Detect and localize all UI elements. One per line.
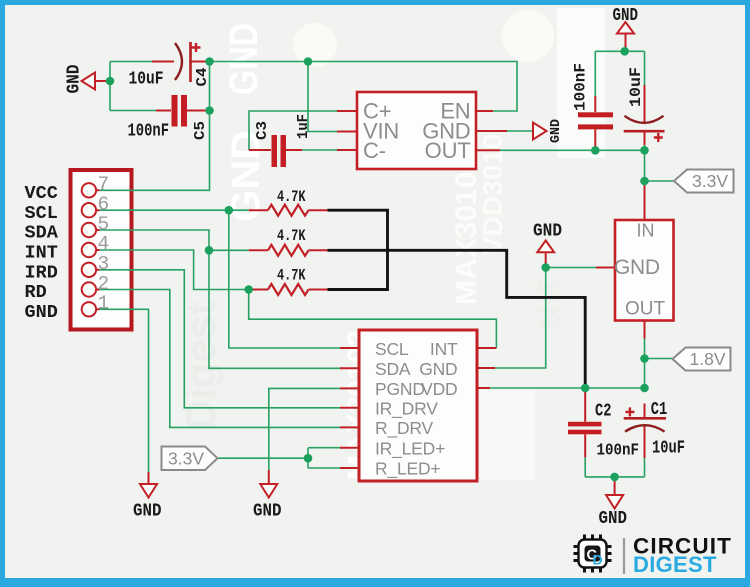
svg-text:SDA: SDA bbox=[375, 359, 411, 379]
svg-text:R_LED+: R_LED+ bbox=[375, 459, 440, 480]
svg-text:2: 2 bbox=[98, 273, 110, 295]
svg-text:3.3V: 3.3V bbox=[168, 449, 204, 469]
svg-text:3: 3 bbox=[98, 253, 110, 275]
svg-text:C5: C5 bbox=[192, 121, 209, 140]
svg-text:10uF: 10uF bbox=[129, 70, 164, 90]
svg-text:VDD3010: VDD3010 bbox=[477, 134, 508, 255]
svg-text:INT: INT bbox=[430, 339, 458, 359]
svg-text:4.7K: 4.7K bbox=[277, 188, 306, 206]
svg-text:100nF: 100nF bbox=[128, 122, 170, 142]
svg-text:SCL: SCL bbox=[25, 203, 58, 224]
svg-text:SDA: SDA bbox=[25, 223, 59, 244]
svg-text:3.3V: 3.3V bbox=[692, 171, 728, 191]
svg-text:GND: GND bbox=[222, 23, 266, 95]
svg-text:GND: GND bbox=[614, 256, 660, 279]
svg-text:RD: RD bbox=[25, 282, 47, 303]
svg-text:C-: C- bbox=[363, 138, 386, 163]
svg-text:SCL: SCL bbox=[375, 339, 409, 359]
svg-text:VDD: VDD bbox=[421, 379, 457, 399]
svg-text:R_DRV: R_DRV bbox=[375, 418, 434, 439]
svg-text:C4: C4 bbox=[194, 68, 211, 87]
svg-text:GND: GND bbox=[64, 65, 85, 94]
svg-text:IRD: IRD bbox=[25, 262, 58, 283]
svg-text:OUT: OUT bbox=[625, 299, 666, 320]
svg-text:INT: INT bbox=[25, 243, 58, 264]
svg-text:GND: GND bbox=[599, 508, 628, 529]
svg-text:VCC: VCC bbox=[25, 183, 58, 204]
svg-text:1: 1 bbox=[98, 293, 110, 315]
svg-text:IR_LED+: IR_LED+ bbox=[375, 439, 445, 460]
svg-text:100nF: 100nF bbox=[597, 442, 640, 461]
svg-text:4.7K: 4.7K bbox=[277, 227, 306, 245]
svg-text:PGND: PGND bbox=[375, 379, 425, 399]
svg-text:5: 5 bbox=[98, 213, 110, 235]
svg-text:GND: GND bbox=[533, 221, 562, 242]
svg-text:10uF: 10uF bbox=[627, 67, 645, 107]
svg-text:D: D bbox=[593, 552, 603, 568]
svg-text:OUT: OUT bbox=[425, 138, 471, 163]
svg-text:GND: GND bbox=[253, 501, 282, 522]
svg-text:C3: C3 bbox=[254, 121, 271, 140]
svg-text:GND: GND bbox=[613, 5, 639, 26]
svg-text:IN: IN bbox=[637, 221, 655, 241]
svg-text:4.7K: 4.7K bbox=[277, 267, 306, 285]
svg-text:C2: C2 bbox=[595, 402, 612, 422]
svg-text:IR_DRV: IR_DRV bbox=[375, 399, 438, 420]
svg-text:1uF: 1uF bbox=[295, 114, 312, 139]
svg-text:GND: GND bbox=[25, 302, 58, 323]
svg-text:C1: C1 bbox=[651, 400, 668, 420]
svg-text:4: 4 bbox=[98, 233, 110, 255]
svg-text:6: 6 bbox=[98, 194, 110, 216]
svg-text:GND: GND bbox=[419, 359, 457, 379]
svg-text:1.8V: 1.8V bbox=[690, 349, 726, 369]
svg-text:100nF: 100nF bbox=[572, 63, 590, 111]
svg-text:DIGEST: DIGEST bbox=[633, 552, 717, 577]
svg-text:10uF: 10uF bbox=[652, 439, 685, 459]
svg-text:GND: GND bbox=[133, 501, 162, 522]
svg-text:GND: GND bbox=[548, 119, 564, 143]
svg-text:7: 7 bbox=[98, 174, 110, 196]
